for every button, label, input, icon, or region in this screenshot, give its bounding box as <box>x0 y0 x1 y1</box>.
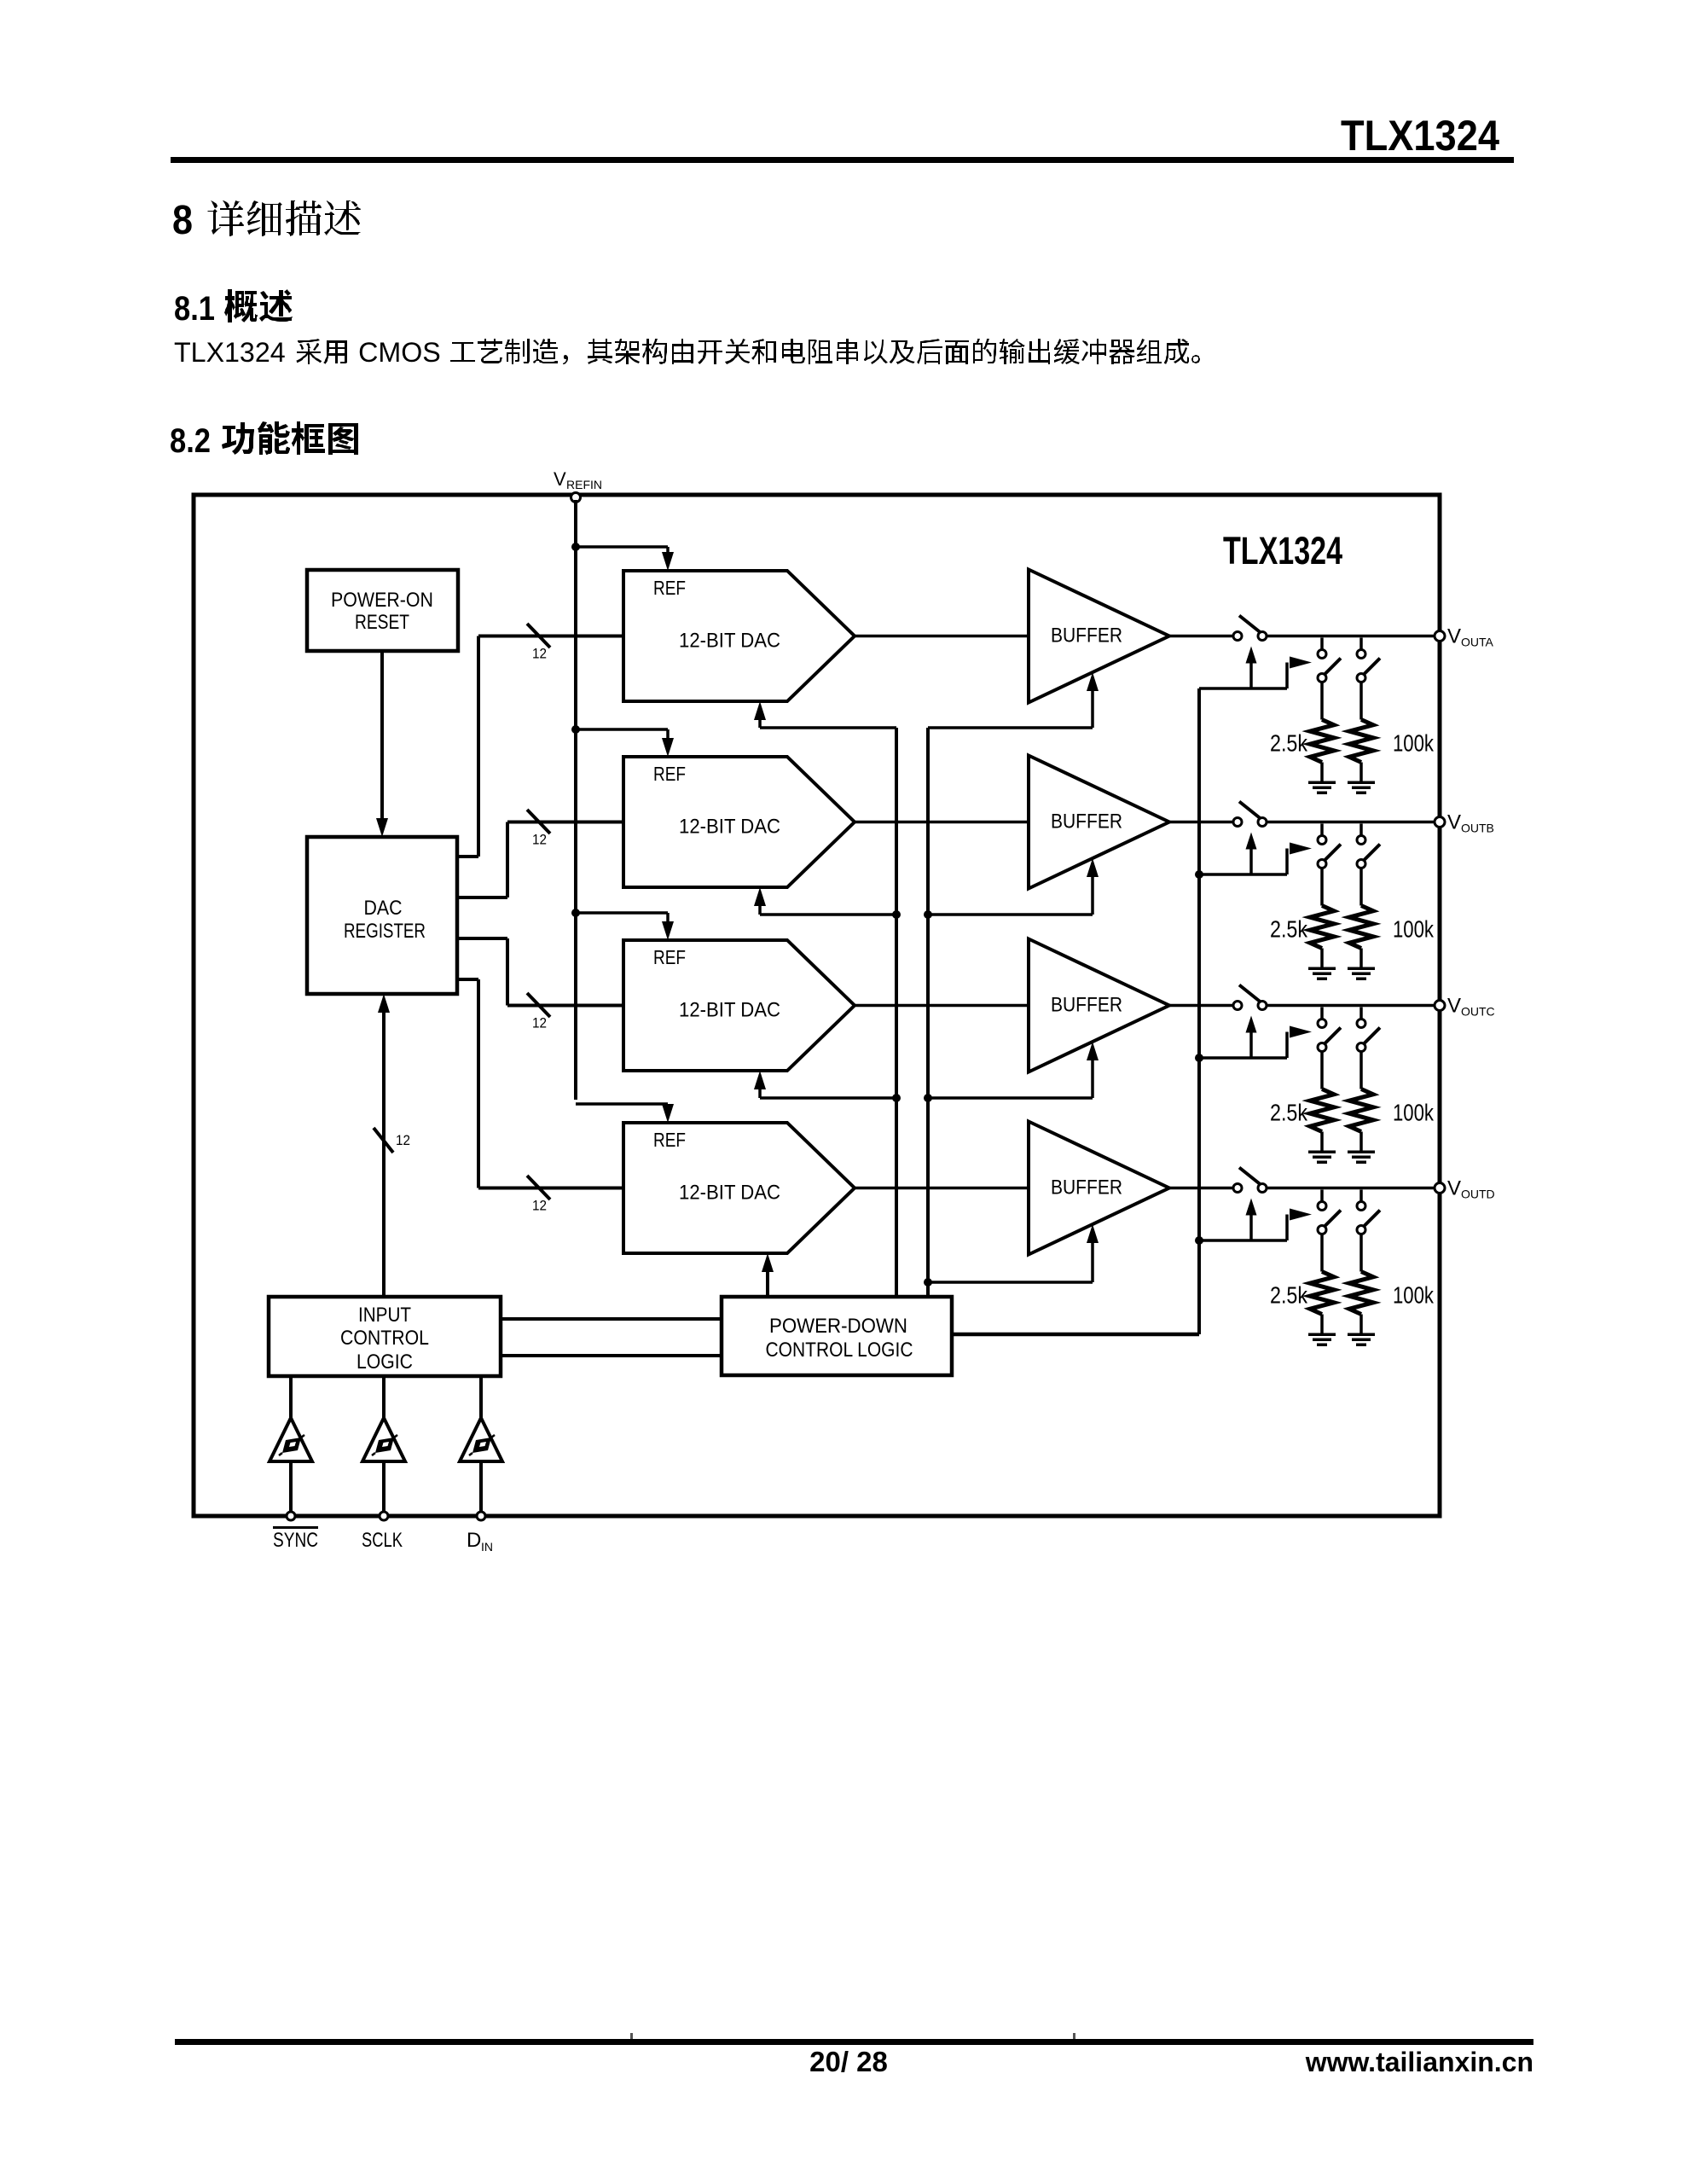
svg-text:IN: IN <box>481 1540 493 1554</box>
svg-text:POWER-ON: POWER-ON <box>331 589 433 612</box>
svg-text:8: 8 <box>172 198 193 243</box>
svg-text:OUTC: OUTC <box>1461 1005 1495 1019</box>
svg-text:CMOS: CMOS <box>358 337 441 368</box>
svg-text:12: 12 <box>532 646 547 662</box>
svg-text:D: D <box>467 1529 481 1552</box>
svg-text:SCLK: SCLK <box>362 1529 403 1552</box>
svg-text:2.5k: 2.5k <box>1270 1282 1308 1309</box>
svg-text:TLX1324: TLX1324 <box>1223 529 1342 572</box>
svg-text:8.2: 8.2 <box>170 422 211 460</box>
svg-text:2.5k: 2.5k <box>1270 730 1308 757</box>
svg-text:LOGIC: LOGIC <box>357 1350 413 1374</box>
svg-text:20/ 28: 20/ 28 <box>809 2046 888 2077</box>
svg-text:www.tailianxin.cn: www.tailianxin.cn <box>1305 2047 1533 2077</box>
svg-text:OUTD: OUTD <box>1461 1188 1495 1201</box>
svg-text:12-BIT DAC: 12-BIT DAC <box>679 1182 780 1205</box>
svg-text:BUFFER: BUFFER <box>1051 810 1122 834</box>
svg-text:REFIN: REFIN <box>566 478 602 491</box>
svg-text:100k: 100k <box>1393 1282 1435 1309</box>
svg-text:REF: REF <box>653 577 686 599</box>
svg-text:BUFFER: BUFFER <box>1051 624 1122 648</box>
svg-text:TLX1324: TLX1324 <box>1341 112 1499 160</box>
svg-text:DAC: DAC <box>364 897 403 920</box>
svg-text:V: V <box>1447 1177 1461 1200</box>
svg-text:POWER-DOWN: POWER-DOWN <box>769 1315 907 1338</box>
svg-text:100k: 100k <box>1393 1100 1435 1126</box>
svg-text:2.5k: 2.5k <box>1270 1100 1308 1126</box>
svg-text:12-BIT DAC: 12-BIT DAC <box>679 630 780 653</box>
svg-text:2.5k: 2.5k <box>1270 916 1308 943</box>
svg-text:REF: REF <box>653 946 686 968</box>
svg-text:12: 12 <box>532 832 547 848</box>
svg-text:8.1: 8.1 <box>174 290 215 328</box>
svg-text:CONTROL: CONTROL <box>340 1327 429 1350</box>
svg-text:100k: 100k <box>1393 916 1435 943</box>
svg-text:TLX1324: TLX1324 <box>174 337 286 368</box>
svg-text:100k: 100k <box>1393 730 1435 757</box>
svg-text:INPUT: INPUT <box>358 1304 411 1327</box>
svg-text:SYNC: SYNC <box>273 1529 318 1552</box>
svg-text:V: V <box>1447 625 1461 648</box>
svg-text:12: 12 <box>532 1015 547 1031</box>
svg-text:12: 12 <box>532 1198 547 1214</box>
svg-text:REF: REF <box>653 763 686 785</box>
svg-text:REGISTER: REGISTER <box>344 920 426 943</box>
svg-text:12: 12 <box>396 1132 410 1148</box>
svg-text:OUTB: OUTB <box>1461 822 1494 835</box>
svg-text:BUFFER: BUFFER <box>1051 994 1122 1017</box>
svg-text:V: V <box>554 468 566 490</box>
svg-text:CONTROL LOGIC: CONTROL LOGIC <box>766 1339 913 1362</box>
svg-text:V: V <box>1447 811 1461 834</box>
svg-text:REF: REF <box>653 1129 686 1151</box>
svg-text:V: V <box>1447 995 1461 1018</box>
svg-text:12-BIT DAC: 12-BIT DAC <box>679 999 780 1022</box>
svg-text:12-BIT DAC: 12-BIT DAC <box>679 816 780 839</box>
svg-text:RESET: RESET <box>355 611 409 634</box>
svg-text:BUFFER: BUFFER <box>1051 1176 1122 1199</box>
svg-text:OUTA: OUTA <box>1461 636 1494 649</box>
